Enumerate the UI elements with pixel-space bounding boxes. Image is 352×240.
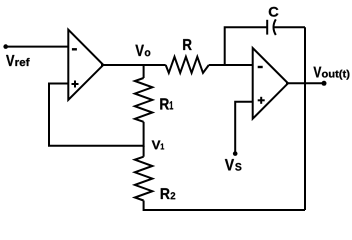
label C <box>269 7 279 17</box>
label Vout(t) <box>314 67 350 80</box>
label V1 <box>152 141 164 150</box>
wire U2 noninverting input to VS <box>235 102 253 154</box>
resistor R <box>166 57 209 73</box>
wire node Vo down to R1 <box>143 65 145 78</box>
terminal dot Vout <box>322 81 327 86</box>
terminal dot VS <box>233 151 238 156</box>
resistor R1 <box>135 78 153 122</box>
wire R to U2 inverting input <box>209 64 253 66</box>
op-amp U1 <box>68 30 103 100</box>
label Vref <box>6 55 30 66</box>
wire Vref to U1 inverting input <box>6 46 69 48</box>
wire feedback node V1 to U1 noninverting input <box>49 84 144 146</box>
resistor R2 <box>135 157 153 201</box>
wire R1 to node V1 <box>143 122 145 147</box>
wire U2 output to Vout terminal <box>286 82 324 84</box>
op-amp U2 <box>253 48 288 119</box>
wire junction up to capacitor <box>225 27 268 65</box>
label R2 <box>161 188 175 199</box>
wire capacitor to output node <box>274 26 305 28</box>
wire U1 output to node Vo and resistor R <box>101 64 166 66</box>
label Vo <box>135 45 150 56</box>
wire node V1 down to R2 <box>143 146 145 157</box>
wire right-side vertical feedback/return <box>304 27 306 210</box>
capacitor C <box>267 19 276 35</box>
label R <box>183 39 192 50</box>
label VS <box>225 159 242 171</box>
terminal dot Vref <box>3 44 8 49</box>
wire R2 to bottom return <box>144 201 305 211</box>
label R1 <box>160 98 173 109</box>
